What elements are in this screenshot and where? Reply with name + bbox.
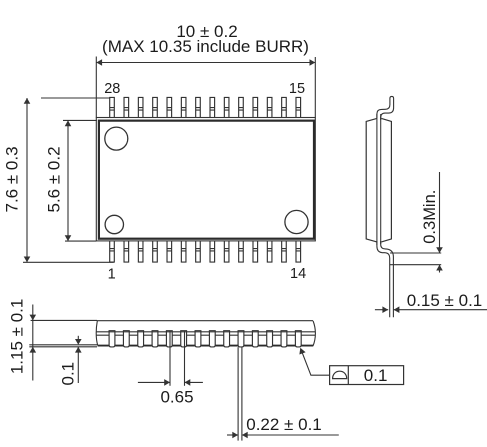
pin 14 (bottom row) — [296, 241, 301, 262]
svg-text:1: 1 — [108, 266, 116, 282]
pin 27 (top row) — [124, 97, 129, 117]
front view lead 8 — [209, 331, 215, 347]
ext line left — [95, 57, 97, 118]
front view lead 14 — [295, 331, 301, 347]
leader line with arrow — [299, 348, 329, 375]
index circle bottom-left (small) — [105, 215, 123, 233]
dim line lower — [439, 265, 441, 273]
dim line — [26, 98, 28, 262]
dim line — [138, 381, 170, 383]
pin 10 (bottom row) — [239, 241, 244, 262]
pin 5 (bottom row) — [167, 241, 172, 262]
pin 19 (top row) — [239, 97, 244, 117]
bottom row pins 1..14 — [110, 241, 301, 262]
front view lead 7 — [195, 331, 201, 347]
pin 25 (top row) — [153, 97, 158, 117]
side lead top bend — [377, 96, 394, 120]
dim line — [227, 434, 238, 436]
pin 9 (bottom row) — [224, 241, 229, 262]
side lead face lines — [376, 114, 378, 245]
pin 3 (bottom row) — [138, 241, 143, 262]
svg-text:0.1: 0.1 — [364, 366, 388, 385]
pin 24 (top row) — [167, 97, 172, 117]
pin 8 (bottom row) — [210, 241, 215, 262]
svg-text:28: 28 — [104, 81, 120, 97]
ext lines — [169, 331, 171, 386]
pin 12 (bottom row) — [267, 241, 272, 262]
front body right end arc — [313, 321, 316, 346]
package body thin outline — [96, 118, 315, 241]
pin 1 (bottom row) — [110, 241, 115, 262]
svg-text:7.6 ± 0.3: 7.6 ± 0.3 — [3, 146, 22, 212]
package body thick outline — [99, 121, 314, 239]
svg-text:0.15 ± 0.1: 0.15 ± 0.1 — [407, 291, 483, 310]
index circle bottom-right — [285, 210, 308, 233]
front pins — [109, 331, 301, 347]
ext line lower — [390, 264, 441, 266]
front view lead 13 — [281, 331, 287, 347]
pin 17 (top row) — [267, 97, 272, 117]
ext top — [41, 97, 110, 99]
svg-text:5.6 ± 0.2: 5.6 ± 0.2 — [45, 146, 64, 212]
pin 7 (bottom row) — [196, 241, 201, 262]
pin 26 (top row) — [138, 97, 143, 117]
side body slab — [366, 118, 391, 241]
front view lead 1 — [109, 331, 115, 347]
ext seat — [29, 346, 97, 348]
lead cross-section dome — [333, 371, 347, 378]
front view lead 4 — [152, 331, 158, 347]
svg-text:0.3Min.: 0.3Min. — [421, 190, 439, 244]
ext bottom — [65, 240, 96, 242]
pin 13 (bottom row) — [282, 241, 287, 262]
pin 15 (top row) — [296, 97, 301, 117]
pin 22 (top row) — [196, 97, 201, 117]
front view lead 5 — [166, 331, 172, 347]
ext line right — [314, 57, 316, 118]
front view lead 6 — [181, 331, 187, 347]
ext line upper — [390, 252, 441, 254]
top row pins 28..15 — [110, 97, 301, 117]
dim line upper — [439, 172, 441, 253]
svg-text:15: 15 — [289, 81, 305, 97]
front parting line lower — [97, 334, 316, 336]
ext lines — [237, 347, 239, 440]
pin 6 (bottom row) — [181, 241, 186, 262]
front view lead 12 — [267, 331, 273, 347]
svg-text:14: 14 — [290, 266, 306, 282]
pin 11 (bottom row) — [253, 241, 258, 262]
svg-text:1.15 ± 0.1: 1.15 ± 0.1 — [8, 299, 27, 375]
front view lead 2 — [123, 331, 129, 347]
ext bottom — [23, 261, 114, 263]
front body top edge — [97, 320, 313, 322]
detail box — [330, 366, 404, 385]
index circle top-left — [105, 127, 128, 150]
pin 16 (top row) — [282, 97, 287, 117]
front body left end arc — [96, 321, 98, 346]
pin 20 (top row) — [224, 97, 229, 117]
front view lead 9 — [224, 331, 230, 347]
svg-text:(MAX 10.35 include BURR): (MAX 10.35 include BURR) — [102, 37, 309, 56]
pin 4 (bottom row) — [153, 241, 158, 262]
side lead bottom bend — [377, 241, 394, 317]
front parting line upper — [96, 331, 315, 333]
ext top — [63, 119, 97, 121]
pin 2 (bottom row) — [124, 241, 129, 262]
ext top — [31, 319, 97, 321]
pin 18 (top row) — [253, 97, 258, 117]
pin 23 (top row) — [181, 97, 186, 117]
front body bottom thick edge — [98, 345, 314, 347]
front view lead 10 — [238, 331, 244, 347]
dim line — [32, 305, 34, 381]
dim line — [67, 120, 69, 241]
svg-text:0.1: 0.1 — [58, 362, 77, 386]
detail box divider — [347, 366, 349, 385]
ext body bottom — [29, 344, 97, 346]
front view lead 11 — [252, 331, 258, 347]
svg-text:0.22 ± 0.1: 0.22 ± 0.1 — [246, 415, 322, 434]
pin 28 (top row) — [110, 97, 115, 117]
pin 21 (top row) — [210, 97, 215, 117]
dim line 10 — [96, 57, 315, 118]
front view lead 3 — [138, 331, 144, 347]
svg-text:0.65: 0.65 — [160, 387, 193, 406]
